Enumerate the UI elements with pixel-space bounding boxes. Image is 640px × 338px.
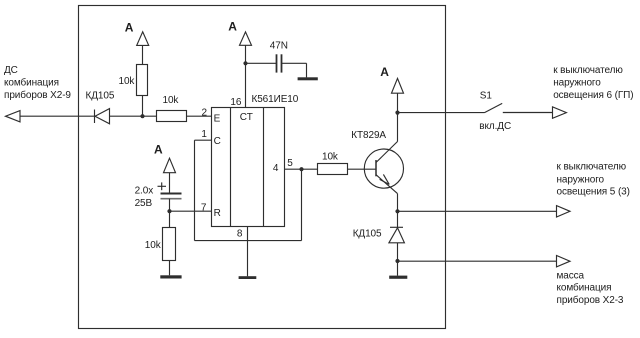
svg-text:47N: 47N — [270, 41, 288, 52]
wire: feedback right vertical to output node — [301, 169, 303, 240]
svg-text:к выключателю: к выключателю — [553, 65, 623, 76]
svg-text:10k: 10k — [119, 76, 136, 87]
svg-text:R: R — [214, 208, 221, 219]
wire: IC pin 4/5 output — [285, 168, 318, 170]
label к выключателю наружного освещения 5 (3) — [557, 162, 630, 198]
wire: node down to ground bar — [397, 261, 399, 276]
junction node: output/feedback — [299, 167, 303, 171]
wire: A arrow down to collector node — [397, 93, 399, 112]
junction node: pin16 wire / C1 — [243, 61, 247, 65]
label к выключателю наружного освещения 6 (ГП) — [553, 65, 633, 101]
junction node: C2/R3/pin7 — [167, 209, 171, 213]
svg-text:A: A — [228, 19, 237, 33]
svg-text:комбинация: комбинация — [557, 282, 612, 294]
wire: R1 bottom to junction — [142, 96, 144, 117]
wire: R3 bottom to ground — [169, 261, 171, 276]
label масса комбинация приборов Х2-3 — [557, 270, 624, 306]
svg-text:4: 4 — [273, 163, 279, 174]
svg-text:вкл.ДС: вкл.ДС — [479, 121, 511, 132]
svg-text:ДС: ДС — [4, 65, 18, 76]
diode D1 КД105 — [95, 109, 110, 124]
wire: S1 to output arrow 1 — [503, 112, 553, 114]
svg-text:приборов Х2-3: приборов Х2-3 — [557, 294, 624, 306]
junction node: collector/A/S1 — [395, 111, 399, 115]
wire: A arrow to R1 top — [142, 45, 144, 64]
wire: junction to R3 top — [169, 211, 171, 227]
IC U1 К561ИЕ10 counter body — [212, 108, 285, 227]
transistor Q1 КТ829А — [364, 142, 403, 194]
wire: emitter node to output arrow 2 — [398, 210, 557, 212]
svg-text:2: 2 — [202, 108, 208, 119]
svg-text:CT: CT — [240, 112, 253, 123]
label ДС комбинация приборов Х2-9 — [4, 65, 71, 101]
svg-text:10k: 10k — [163, 95, 180, 106]
svg-text:комбинация: комбинация — [4, 77, 59, 89]
terminal arrow 3 (масса) — [557, 256, 571, 267]
svg-text:A: A — [125, 21, 134, 35]
wire: collector node to switch S1 — [398, 112, 485, 114]
power rail A arrow (above pin 16) — [228, 19, 251, 45]
terminal arrow 2 (to light switch 5) — [557, 206, 571, 217]
svg-text:10k: 10k — [145, 240, 162, 251]
wire: D2 anode to ground node — [397, 243, 399, 261]
svg-text:16: 16 — [230, 97, 241, 108]
junction node: R1/D1/R2 — [140, 114, 144, 118]
svg-text:2.0x: 2.0x — [135, 185, 154, 196]
svg-text:приборов Х2-9: приборов Х2-9 — [4, 89, 71, 101]
wire: IC pin 8 to ground — [247, 227, 249, 277]
svg-text:8: 8 — [237, 228, 243, 239]
wire: IC pin 1 (C) stub — [195, 139, 212, 141]
svg-text:A: A — [154, 143, 163, 157]
terminal arrow X2-9 (ДС input, left) — [6, 111, 21, 122]
switch S1 blade — [485, 103, 503, 112]
svg-text:S1: S1 — [480, 90, 493, 101]
svg-text:25В: 25В — [135, 198, 153, 209]
resistor R1 10k (vertical) — [137, 65, 148, 96]
diode D2 КД105 — [389, 227, 405, 243]
enclosure box — [79, 6, 446, 329]
wire: A arrow down to IC pin 16 — [245, 45, 247, 107]
wire: A arrow to C2 top plate — [169, 173, 171, 193]
svg-text:E: E — [214, 113, 221, 124]
power rail A arrow (above Q1 collector) — [380, 65, 403, 93]
resistor R3 10k (vertical) — [163, 228, 176, 261]
wire: emitter node to diode D2 — [397, 211, 399, 227]
svg-text:К561ИЕ10: К561ИЕ10 — [252, 94, 299, 105]
power rail A arrow (above R1) — [125, 21, 149, 46]
wire: ground node to output arrow 3 — [398, 260, 557, 262]
wire: R4 to Q1 base — [348, 168, 377, 170]
junction node: emitter/output 2 — [395, 209, 399, 213]
svg-text:КД105: КД105 — [353, 229, 382, 240]
wire: diode D1 to resistor R2 — [110, 115, 157, 117]
wire: C1 to ground — [282, 62, 307, 64]
capacitor C1 47N — [277, 54, 282, 72]
svg-text:освещения 5 (3): освещения 5 (3) — [557, 186, 630, 197]
svg-text:5: 5 — [287, 158, 293, 169]
resistor R4 10k (horizontal, base) — [318, 164, 348, 175]
ground (pin 8) — [239, 276, 257, 279]
wire: junction to IC pin 7 (R) — [170, 210, 212, 212]
svg-text:наружного: наружного — [557, 174, 605, 185]
svg-text:КТ829А: КТ829А — [351, 130, 386, 141]
svg-text:к выключателю: к выключателю — [557, 162, 627, 173]
wire: junction to capacitor C1 — [246, 62, 277, 64]
svg-text:1: 1 — [201, 129, 207, 140]
ground (C1) — [298, 77, 318, 80]
wire: Q1 collector up to node — [397, 113, 399, 142]
svg-text:A: A — [380, 65, 389, 79]
wire: feedback bottom horizontal — [195, 240, 302, 242]
wire: feedback left vertical — [194, 140, 196, 240]
wire: input arrow to diode D1 — [20, 115, 95, 117]
capacitor C2 electrolytic 2.0x25В — [158, 182, 182, 198]
power rail A arrow (above C2) — [154, 143, 176, 173]
wire: down to ground bar — [306, 63, 308, 77]
terminal arrow 1 (to light switch 6) — [553, 107, 567, 118]
svg-text:наружного: наружного — [553, 77, 601, 88]
ground (D2) — [389, 276, 407, 279]
svg-text:C: C — [214, 136, 221, 147]
svg-text:10k: 10k — [322, 151, 339, 162]
resistor R2 10k (horizontal) — [157, 111, 187, 122]
junction node: D2/ground/output 3 — [395, 259, 399, 263]
svg-text:масса: масса — [557, 270, 585, 281]
label C2 value 2.0x 25В — [135, 185, 154, 209]
svg-text:КД105: КД105 — [86, 91, 115, 102]
svg-text:освещения 6 (ГП): освещения 6 (ГП) — [553, 90, 633, 101]
wire: R2 to IC pin 2 — [187, 115, 212, 117]
wire: C2 bottom plate to junction — [169, 199, 171, 212]
ground (R3) — [160, 275, 181, 278]
wire: Q1 emitter down to node — [397, 194, 399, 212]
